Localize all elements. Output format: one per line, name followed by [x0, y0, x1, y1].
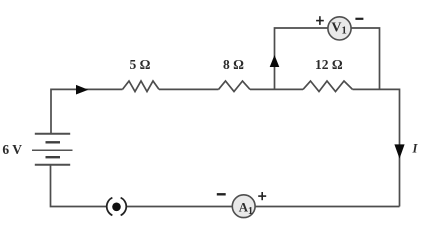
plug/jack symbol: white interior circle — [106, 196, 127, 217]
wire: segment between R1 and R2 — [159, 88, 219, 90]
arrowhead: current I down arrow on right wire — [394, 144, 404, 158]
svg-text:6 V: 6 V — [2, 142, 22, 157]
wire: bottom wire + left vertical lower up to battery — [51, 165, 400, 207]
resistor R3 (12 ohm) zigzag — [303, 81, 353, 92]
plug/jack symbol: left arc — [107, 198, 113, 216]
plug/jack symbol: center contact dot — [112, 203, 121, 212]
svg-text:I: I — [412, 141, 419, 155]
wire: left vertical upper + top-left segment to R1 — [51, 89, 123, 133]
polarity minus sign right of V1 — [355, 18, 363, 20]
battery B1 bottom long plate — [35, 164, 70, 166]
wire: V1 right side horizontal + vertical down to top wire — [351, 28, 380, 89]
wire: voltmeter branch vertical up from node + horizontal to V1 — [275, 28, 329, 89]
resistor R1 (5 ohm) zigzag — [123, 81, 160, 92]
polarity plus sign left of V1 — [316, 16, 324, 25]
battery B1 middle thin long plate — [32, 149, 73, 151]
battery B1 short plate (lower) — [46, 156, 61, 158]
polarity plus sign right of A1 — [258, 192, 266, 200]
voltmeter V1 circle — [328, 17, 351, 40]
resistor R2 (8 ohm) zigzag — [219, 81, 251, 92]
arrowhead: up arrow on voltmeter branch wire — [270, 55, 280, 67]
svg-text:8 Ω: 8 Ω — [223, 57, 244, 72]
plug/jack symbol: right arc — [121, 198, 127, 216]
battery B1 (6 V) top long plate — [35, 133, 70, 135]
wire: segment between R2 and R3 (node at x=274.5) — [250, 88, 303, 90]
current direction arrowhead on top-left wire — [76, 85, 88, 95]
wire: top-right segment + right vertical down — [353, 89, 400, 206]
ammeter A1 circle — [232, 195, 255, 218]
svg-text:5 Ω: 5 Ω — [130, 57, 151, 72]
battery B1 short plate (upper) — [46, 141, 61, 143]
polarity minus sign left of A1 — [217, 193, 226, 195]
svg-text:12 Ω: 12 Ω — [315, 57, 343, 72]
